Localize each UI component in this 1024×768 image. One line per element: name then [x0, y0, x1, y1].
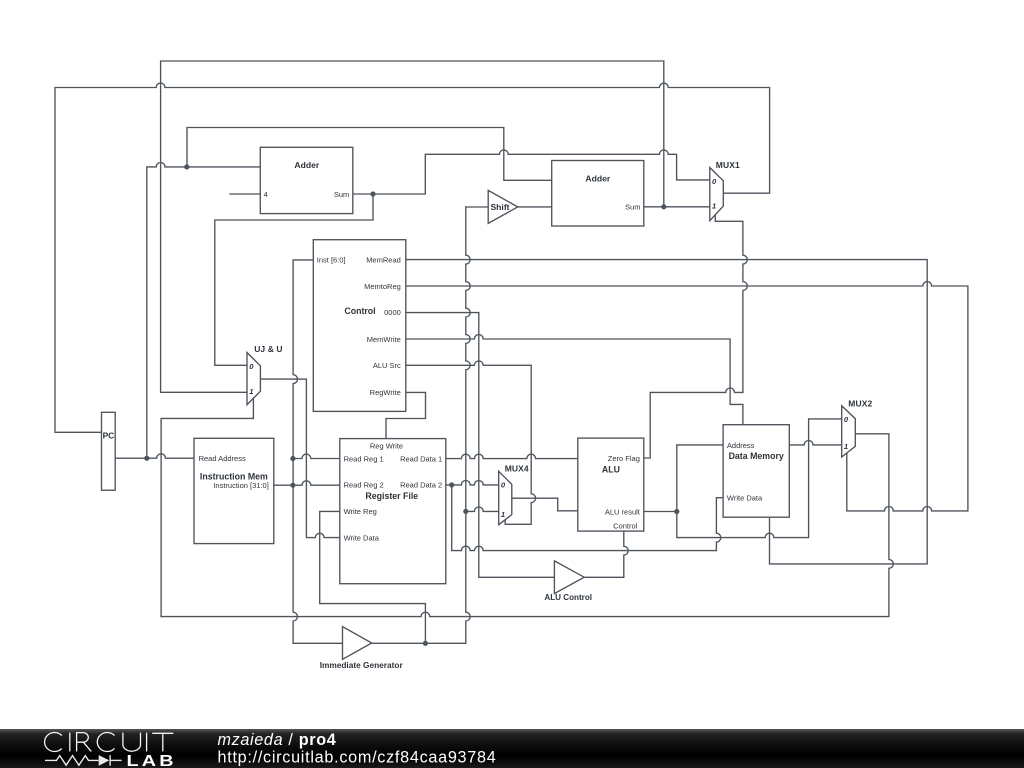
wire pcin	[55, 83, 770, 432]
svg-text:1: 1	[501, 510, 505, 519]
svg-text:Inst [6:0]: Inst [6:0]	[317, 256, 346, 265]
data memory M2	[723, 425, 789, 518]
svg-text:Read Data 1: Read Data 1	[400, 454, 442, 463]
CircuitLab logo	[0, 729, 520, 768]
svg-text:Read Address: Read Address	[199, 454, 246, 463]
wire 0000	[406, 313, 555, 578]
wire zero	[644, 388, 743, 458]
svg-text:Adder: Adder	[294, 160, 319, 170]
wire pcout	[115, 454, 194, 458]
svg-text:4: 4	[264, 190, 268, 199]
wire inst60	[293, 260, 342, 643]
svg-text:Instruction Mem: Instruction Mem	[200, 471, 268, 481]
wire pc4b	[215, 194, 373, 365]
svg-text:Control: Control	[613, 522, 638, 531]
wire branch	[161, 61, 664, 392]
wire rd1	[446, 454, 578, 458]
svg-text:MUX1: MUX1	[716, 160, 740, 170]
wire dmwd	[452, 485, 723, 551]
svg-text:Read Reg 2: Read Reg 2	[344, 481, 384, 490]
ALU control unit	[554, 561, 584, 594]
wire rd2	[446, 481, 499, 485]
svg-text:ALU Control: ALU Control	[544, 593, 592, 602]
ALU U2	[578, 438, 644, 531]
register PC	[102, 412, 116, 490]
wire acout	[584, 531, 628, 577]
node J10	[423, 641, 428, 646]
svg-text:MemRead: MemRead	[366, 255, 401, 264]
wire ujsel	[161, 399, 253, 617]
wire m1sel	[715, 214, 747, 393]
svg-text:MemWrite: MemWrite	[367, 335, 401, 344]
svg-text:Zero Flag: Zero Flag	[608, 454, 640, 463]
node J7	[449, 482, 454, 487]
svg-text:mzaieda / pro4: mzaieda / pro4	[218, 731, 337, 749]
svg-text:1: 1	[844, 442, 848, 451]
wire rr1	[293, 454, 340, 458]
wire pc-a2	[187, 128, 552, 181]
svg-text:Address: Address	[727, 441, 755, 450]
wire dmout	[789, 441, 841, 445]
svg-text:MUX4: MUX4	[505, 464, 529, 474]
wire memwrite	[406, 335, 743, 425]
wire shin	[466, 206, 489, 208]
node J9	[674, 509, 679, 514]
mux MUX4	[499, 471, 512, 524]
immediate generator	[343, 627, 372, 660]
wire alures1	[644, 445, 723, 512]
svg-text:Read Reg 1: Read Reg 1	[344, 454, 384, 463]
svg-text:Reg Write: Reg Write	[370, 441, 403, 450]
node J8	[463, 509, 468, 514]
svg-text:ALU result: ALU result	[605, 507, 641, 516]
wire wb	[161, 434, 893, 617]
svg-text:Instruction [31:0]: Instruction [31:0]	[213, 481, 268, 490]
svg-text:Control: Control	[344, 306, 375, 316]
control unit U1	[313, 240, 406, 412]
wire sum2	[644, 206, 710, 208]
svg-text:Register File: Register File	[365, 491, 418, 501]
wire ujout	[260, 379, 339, 537]
wire wreg	[320, 511, 426, 643]
wire shout	[518, 206, 551, 208]
svg-text:PC: PC	[103, 431, 115, 441]
node J6	[290, 483, 295, 488]
mux MUX2	[842, 406, 856, 457]
node J5	[290, 456, 295, 461]
svg-text:Write Data: Write Data	[344, 533, 380, 542]
svg-text:0000: 0000	[384, 308, 401, 317]
node J4	[144, 456, 149, 461]
mux MUX1	[710, 168, 724, 221]
wire pc4	[353, 150, 710, 194]
svg-text:http://circuitlab.com/czf84caa: http://circuitlab.com/czf84caa93784	[218, 749, 497, 767]
svg-text:Write Reg: Write Reg	[344, 507, 377, 516]
svg-text:MUX2: MUX2	[848, 398, 872, 408]
svg-text:Write Data: Write Data	[727, 494, 763, 503]
wire memtoreg	[406, 282, 968, 511]
wire pcv	[147, 163, 261, 459]
wire memread	[406, 260, 927, 564]
svg-text:Adder: Adder	[585, 173, 610, 183]
mux UJ&U	[247, 353, 260, 405]
svg-text:ALU: ALU	[602, 464, 620, 474]
svg-text:Immediate Generator: Immediate Generator	[320, 660, 404, 670]
wire alusrc	[406, 361, 536, 524]
svg-text:1: 1	[712, 202, 716, 211]
svg-text:Shift: Shift	[490, 202, 509, 212]
wire m41	[466, 507, 499, 511]
node J2	[184, 164, 189, 169]
wire instr	[274, 481, 340, 485]
svg-text:Sum: Sum	[625, 203, 640, 212]
svg-text:MemtoReg: MemtoReg	[364, 282, 401, 291]
svg-text:LAB: LAB	[127, 752, 177, 768]
svg-text:Read Data 2: Read Data 2	[400, 481, 442, 490]
adder A2 (branch)	[552, 161, 644, 227]
svg-text:UJ & U: UJ & U	[254, 344, 282, 354]
wire alures2	[677, 419, 842, 538]
node J3	[661, 204, 666, 209]
wire four	[230, 193, 261, 195]
instruction memory M1	[194, 438, 274, 543]
svg-text:1: 1	[249, 387, 253, 396]
wire imm	[372, 207, 470, 643]
svg-text:Sum: Sum	[334, 190, 349, 199]
svg-text:ALU Src: ALU Src	[373, 361, 401, 370]
shift-left unit	[488, 190, 518, 223]
wire m4out	[512, 498, 578, 511]
wire regwrite	[386, 392, 426, 438]
adder A1 (PC+4)	[260, 147, 353, 213]
svg-text:RegWrite: RegWrite	[370, 388, 401, 397]
node J1	[370, 191, 375, 196]
register file RF	[340, 439, 446, 584]
svg-text:Data Memory: Data Memory	[729, 451, 784, 461]
